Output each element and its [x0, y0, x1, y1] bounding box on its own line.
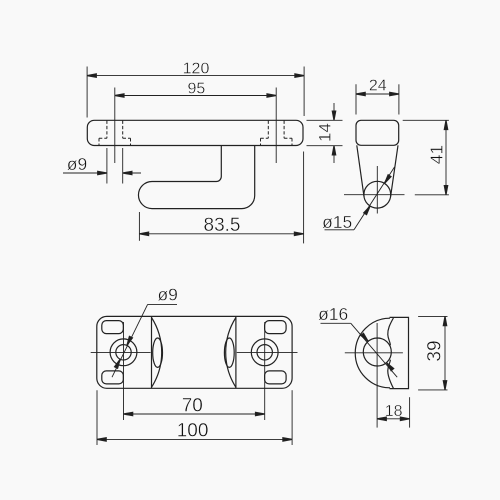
svg-text:95: 95 [188, 80, 206, 97]
svg-text:39: 39 [425, 340, 446, 361]
svg-text:ø15: ø15 [322, 212, 352, 232]
D profile big arc [355, 318, 390, 388]
left web divider line [151, 316, 153, 388]
right web ellipse [224, 338, 234, 367]
D profile top S-curve [388, 318, 394, 345]
dimension 83.5 [139, 152, 303, 244]
svg-text:24: 24 [369, 78, 387, 95]
dimension ø9 leader (bottom view) [112, 304, 177, 377]
dimension 95 [115, 95, 276, 97]
right boss hole ø9 [257, 345, 272, 360]
ear clip bottom-right [265, 371, 287, 384]
bottom view horizontal centerline [91, 351, 298, 353]
front view: mounting plate bar [87, 120, 303, 145]
svg-text:41: 41 [426, 145, 446, 164]
left web ellipse [153, 338, 163, 367]
svg-text:83.5: 83.5 [204, 215, 241, 236]
right boss outer circle [251, 339, 278, 366]
dimension 100 [97, 390, 292, 445]
left boss hole ø9 [116, 345, 131, 360]
dimension 39 [418, 316, 447, 390]
svg-text:100: 100 [177, 421, 209, 442]
hidden countersunk hole right (dashed) [261, 121, 293, 146]
ear clip top-left [102, 321, 124, 334]
bottom view vertical centerlines [124, 322, 265, 420]
centerline left hole [114, 88, 116, 164]
ear clip top-right [265, 321, 287, 334]
dimension 14 (plate thickness) [307, 103, 343, 163]
svg-text:14: 14 [316, 123, 335, 142]
dimension ø9 (front view) [63, 148, 141, 184]
dimension 120 [87, 67, 304, 118]
side view knob circle ø15 [364, 181, 391, 208]
left web arc [152, 318, 162, 388]
dimension 41 [403, 120, 449, 195]
svg-text:ø9: ø9 [67, 154, 87, 174]
dimension ø15 leader [325, 167, 395, 230]
svg-text:ø9: ø9 [157, 284, 177, 304]
side view: plate cross-section [356, 120, 399, 145]
centerline right hole [275, 88, 277, 164]
svg-text:120: 120 [183, 60, 210, 77]
hidden countersunk hole left (dashed) [99, 121, 131, 146]
side view taper left [357, 145, 364, 196]
dimension 18 [377, 397, 410, 427]
side view centerlines [376, 166, 378, 214]
D profile centerlines [345, 323, 403, 428]
bottom view: base outline [97, 316, 292, 388]
right web divider line [235, 316, 237, 388]
D profile view outline [390, 317, 409, 388]
handle profile (front view) [138, 146, 254, 209]
ear clip bottom-left [102, 371, 124, 384]
svg-text:ø16: ø16 [318, 304, 348, 324]
dimension 70 [124, 413, 265, 415]
svg-text:70: 70 [182, 395, 203, 416]
svg-text:18: 18 [385, 403, 403, 420]
left boss outer circle [110, 339, 137, 366]
dimension ø16 leader [321, 323, 398, 377]
side view taper right [391, 145, 398, 196]
right web arc [226, 318, 236, 388]
D profile hole ø16 [363, 338, 391, 366]
dimension 24 [356, 84, 399, 114]
D profile bottom S-curve [388, 360, 394, 389]
